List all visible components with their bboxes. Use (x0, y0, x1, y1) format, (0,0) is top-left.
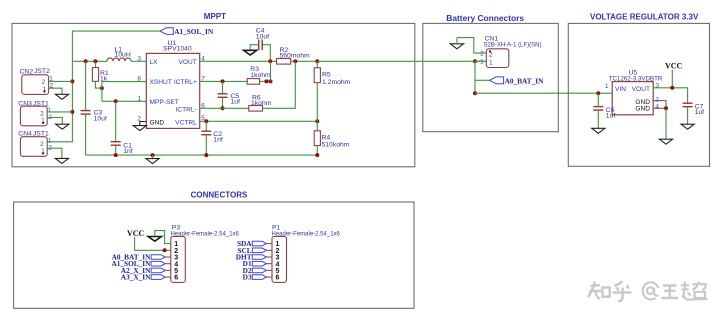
svg-text:VIN: VIN (615, 86, 626, 93)
wire CN1 pin1 to battery vertical (475, 61, 486, 93)
ground CN3 (56, 124, 69, 129)
node junction R3 right b (269, 79, 273, 83)
wire CN3 pin2 to ground (47, 118, 62, 125)
wire battery to regulator VIN (475, 92, 612, 94)
wire U5 GND pins link (652, 101, 666, 109)
node junction battery CN1 pin1 (473, 59, 477, 63)
svg-text:2: 2 (480, 50, 484, 57)
svg-text:LX: LX (150, 59, 159, 66)
ground CN2 (55, 94, 68, 99)
svg-text:VOUT: VOUT (178, 59, 196, 66)
node junction R4 bottom (315, 153, 319, 157)
svg-text:1nf: 1nf (123, 148, 133, 155)
svg-text:S2B-XH-A-1 (LF)(SN): S2B-XH-A-1 (LF)(SN) (484, 42, 542, 48)
ground U1 GND pin (133, 122, 146, 131)
pin stub P1 pin4 (266, 263, 272, 265)
resistor R6 (249, 61, 295, 111)
char hu (613, 282, 632, 302)
pin stub P3 pin5 (165, 269, 171, 271)
char zhi (588, 282, 601, 300)
svg-text:D3: D3 (243, 273, 252, 282)
svg-text:1uf: 1uf (231, 99, 241, 106)
node junction C4/R2 left (268, 59, 272, 63)
wire L1 to U1 LX (131, 60, 146, 62)
watermark zhihu (588, 281, 708, 301)
node junction R1 top (93, 59, 97, 63)
svg-text:VOLTAGE REGULATOR 3.3V: VOLTAGE REGULATOR 3.3V (590, 12, 699, 21)
svg-text:GND: GND (635, 105, 650, 112)
ground battery (450, 38, 463, 49)
connector CN1 S2B-XH-A-1 (480, 36, 541, 68)
ground C7 (681, 124, 694, 129)
wire VOUT regulator (653, 88, 687, 103)
flag A1_SOL_IN P3 (111, 259, 165, 268)
svg-text:1uf: 1uf (695, 109, 705, 116)
power flag VCC P3 (127, 229, 171, 250)
wire VCTRL net (200, 120, 318, 122)
node junction R1 bottom (100, 86, 104, 90)
flag SDA P1 (237, 239, 266, 248)
wire solar net: flag to left rail (72, 31, 160, 61)
capacitor C3 (81, 61, 107, 155)
section box Battery Connectors (423, 23, 559, 131)
capacitor C2 (201, 121, 223, 155)
svg-text:VCC: VCC (127, 229, 145, 238)
node junction R5 top (315, 59, 319, 63)
svg-text:1kohm: 1kohm (250, 72, 271, 79)
svg-text:Battery Connectors: Battery Connectors (446, 13, 524, 23)
node junction battery out corner (473, 91, 477, 95)
resistor R3 (247, 66, 271, 84)
svg-text:CONNECTORS: CONNECTORS (191, 190, 248, 199)
capacitor C6 (593, 93, 615, 128)
flag SCL P1 (237, 246, 266, 255)
ground C6 (592, 128, 605, 133)
ground C4 (arrow style) (244, 50, 257, 55)
wire P3 pin1 to ground (155, 231, 171, 244)
pin stub P1 pin5 (266, 269, 272, 271)
node junction C6 top (596, 91, 600, 95)
svg-text:VCC: VCC (665, 62, 683, 71)
node junction R5/R4 (315, 119, 319, 123)
capacitor C4 (250, 28, 270, 62)
svg-text:1: 1 (137, 96, 141, 103)
char wang (662, 286, 679, 299)
svg-text:4: 4 (655, 104, 659, 111)
char at (643, 282, 659, 299)
pin stub P3 pin4 (165, 263, 171, 265)
svg-text:1nf: 1nf (213, 137, 223, 144)
connector P3 header (171, 225, 240, 283)
connector CN3 JST1 (18, 100, 52, 125)
wire ICTRL+ net (200, 80, 248, 82)
svg-text:10uH: 10uH (115, 52, 131, 59)
svg-text:6: 6 (276, 275, 280, 282)
flag A1_SOL_IN (160, 27, 214, 36)
svg-text:2: 2 (655, 96, 659, 103)
svg-text:VCTRL: VCTRL (175, 119, 197, 126)
flag D3 P1 (243, 273, 267, 282)
wire CN2 pin1 (49, 80, 73, 82)
svg-text:XSHUT: XSHUT (150, 79, 172, 86)
wire left vertical solar rail (47, 61, 72, 142)
power flag VCC regulator (665, 62, 683, 88)
node junction CN3 pin1 (70, 110, 74, 114)
regulator U5 TC1262-3.3VDBTR (605, 70, 663, 115)
inductor L1 (107, 58, 131, 61)
node junction VCTRL/C2 (204, 119, 208, 123)
svg-text:ICTRL+: ICTRL+ (174, 79, 197, 86)
wire R3 to VOUT rail (270, 61, 272, 81)
capacitor C7 (683, 103, 705, 124)
svg-text:VOUT: VOUT (632, 86, 650, 93)
ground CN4 (55, 158, 68, 163)
svg-text:2: 2 (40, 141, 44, 148)
svg-text:2: 2 (489, 51, 493, 58)
ground P3 pin1 (arrow style) (148, 237, 161, 242)
flag A0_BAT_IN battery (475, 76, 544, 85)
svg-text:R5: R5 (322, 72, 331, 79)
resistor R1 (92, 61, 109, 88)
wire CN2 pin2 to ground (49, 88, 62, 94)
capacitor C5 (218, 81, 241, 108)
svg-text:1.2mohm: 1.2mohm (322, 79, 351, 86)
node junction C1 bottom (114, 153, 118, 157)
svg-text:10uf: 10uf (94, 115, 107, 122)
wire battery ground to CN1 pin2 (457, 38, 486, 54)
svg-text:8: 8 (137, 76, 141, 83)
node junction P3 pin2 (163, 248, 167, 252)
svg-text:MPP-SET: MPP-SET (150, 99, 179, 106)
resistor R4 (314, 121, 350, 155)
section box CONNECTORS (14, 202, 414, 308)
resistor R2 (277, 47, 318, 64)
pin stub P1 pin6 (266, 276, 272, 278)
connector CN4 JST1 (18, 131, 52, 157)
flag D2 P1 (243, 266, 267, 275)
node junction R2 right (293, 59, 297, 63)
svg-text:10uf: 10uf (256, 33, 269, 40)
wire VOUT rail U1 to R2 (200, 60, 277, 62)
svg-text:A0_BAT_IN: A0_BAT_IN (505, 76, 545, 85)
svg-text:6: 6 (174, 275, 178, 282)
node junction U5 GND (664, 106, 668, 110)
pin stub P1 pin1 (266, 243, 272, 245)
svg-text:A1_SOL_IN: A1_SOL_IN (174, 27, 214, 36)
node junction MPP-SET/C1 (114, 99, 118, 103)
svg-text:1: 1 (489, 59, 493, 66)
op-amp U1 SPV1040 (137, 40, 205, 128)
wire VOUT rail to battery (317, 60, 486, 62)
pin stub P1 pin2 (266, 249, 272, 251)
wire LX rail (72, 60, 107, 62)
flag DHT P1 (236, 253, 267, 262)
node junction C5 bottom (221, 106, 225, 110)
connector CN2 JST2 (20, 68, 54, 95)
resistor R5 (314, 61, 350, 121)
section box VOLTAGE REGULATOR 3.3V (568, 23, 709, 166)
node junction R3 right a (264, 79, 268, 83)
wire bottom ground rail (86, 154, 318, 156)
svg-text:1uf: 1uf (606, 113, 616, 120)
svg-text:MPPT: MPPT (204, 12, 226, 21)
svg-text:510kohm: 510kohm (322, 141, 350, 148)
svg-text:2: 2 (40, 110, 44, 117)
flag A2_X_IN P3 (121, 266, 165, 275)
node junction rail ground (151, 153, 155, 157)
ground U5 (659, 139, 672, 144)
wire XSHUT net (102, 82, 146, 102)
svg-text:GND: GND (150, 119, 165, 126)
section box MPPT (12, 23, 415, 166)
pin stub P1 pin3 (266, 256, 272, 258)
node junction C2 bottom (204, 153, 208, 157)
flag A0_BAT_IN P3 (112, 253, 166, 262)
pin stub P3 pin6 (165, 276, 171, 278)
svg-text:1: 1 (605, 83, 609, 90)
svg-text:2: 2 (42, 79, 46, 86)
svg-text:ICTRL-: ICTRL- (176, 107, 197, 114)
wire U5 GND to ground (665, 108, 667, 139)
ground bottom rail (146, 155, 159, 164)
svg-text:SPV1040: SPV1040 (163, 45, 192, 52)
connector P1 header (272, 225, 341, 283)
pin stub P3 pin3 (165, 256, 171, 258)
wire ICTRL- net (200, 107, 249, 109)
node junction VCC/VOUT (670, 86, 674, 90)
svg-text:1: 1 (480, 59, 484, 66)
char chao (681, 282, 708, 300)
node junction C5 top (221, 79, 225, 83)
capacitor C1 (111, 101, 133, 155)
svg-text:A3_X_IN: A3_X_IN (121, 273, 151, 282)
flag A3_X_IN P3 (121, 273, 165, 282)
wire CN3 pin1 (47, 111, 72, 113)
wire MPP-SET net (102, 100, 146, 102)
wire CN4 pin2 to ground (47, 148, 62, 158)
node junction CN2 pin1 (70, 79, 74, 83)
node junction C3 top (84, 59, 88, 63)
flag D1 P1 (243, 259, 267, 268)
svg-text:3: 3 (137, 55, 141, 62)
svg-text:JST2: JST2 (34, 68, 50, 75)
